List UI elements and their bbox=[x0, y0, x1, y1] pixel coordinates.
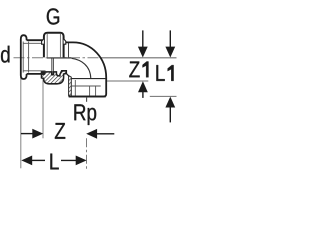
dim L left arrow bbox=[31, 159, 46, 161]
outlet thread line 2 bbox=[95, 86, 97, 96]
dim L1 up arrow bbox=[169, 105, 171, 122]
centerline horizontal axis bbox=[14, 57, 102, 59]
outlet socket cut wall hatched bbox=[69, 76, 72, 96]
elbow outer contour bbox=[66, 42, 106, 96]
dim L1 down arrow bbox=[169, 30, 171, 49]
nut bottom edge bbox=[47, 57, 72, 59]
socket flange verticals bbox=[45, 40, 47, 57]
outlet axis centerline bbox=[86, 138, 88, 171]
lip to wall edge bbox=[66, 73, 68, 76]
dim Z left arrow bbox=[21, 133, 34, 135]
flange left rim bbox=[41, 71, 46, 75]
label L1 bbox=[156, 65, 173, 81]
label Z bbox=[55, 123, 65, 139]
outlet bottom face bbox=[69, 96, 106, 98]
socket bead inner line bbox=[28, 42, 30, 73]
label G bbox=[47, 8, 59, 24]
label Rp bbox=[74, 104, 96, 125]
nut facet line right bbox=[59, 33, 61, 57]
socket inner wall top bbox=[23, 42, 45, 44]
nut facet line left bbox=[46, 33, 48, 57]
label L bbox=[50, 154, 58, 170]
extension line press end plane bbox=[42, 78, 44, 138]
sectioned flange (hatched tub) bbox=[42, 71, 67, 84]
union skirt verticals bbox=[51, 58, 53, 74]
nut right flare bbox=[64, 39, 66, 44]
elbow joint vertical bbox=[68, 43, 70, 58]
dim Z1 down arrow bbox=[142, 30, 144, 49]
socket inner face line bbox=[22, 42, 24, 73]
outlet thread shoulder bbox=[71, 85, 100, 87]
outlet axis dash above label bbox=[86, 98, 88, 102]
dim Z right arrow (Rp pointer) bbox=[96, 133, 115, 135]
socket inner wall bottom bbox=[23, 70, 45, 72]
extension line left end bbox=[20, 78, 22, 169]
label d bbox=[1, 46, 9, 63]
press socket bead outline bbox=[21, 35, 27, 79]
thread crest left bbox=[74, 80, 76, 96]
nut left flare bbox=[42, 39, 44, 44]
outlet collar top line bbox=[71, 78, 106, 80]
press socket cylinder bottom edge bbox=[27, 73, 47, 75]
reference line B (Z1 bottom) bbox=[107, 80, 148, 82]
union nut body bbox=[44, 33, 64, 58]
axis reference line A bbox=[100, 57, 177, 59]
label Z1 bbox=[129, 61, 148, 77]
dim L right arrow bbox=[61, 159, 78, 161]
dim Z1 up arrow bbox=[142, 90, 144, 98]
press socket cylinder top edge bbox=[27, 39, 47, 41]
outlet thread line 1 bbox=[89, 86, 91, 96]
reference line C (L1 bottom) bbox=[150, 95, 177, 97]
elbow bore inner curve bbox=[72, 58, 91, 79]
